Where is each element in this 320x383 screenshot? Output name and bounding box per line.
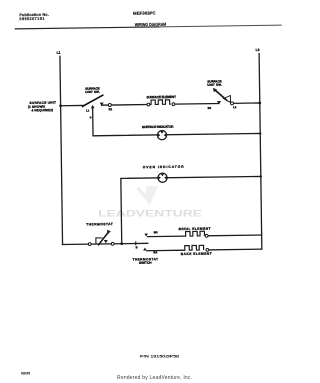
svg-text:SURFACE ELEMENT: SURFACE ELEMENT: [146, 95, 176, 99]
svg-text:THERMOSTAT: THERMOSTAT: [86, 222, 113, 226]
wire bake to bus: [207, 248, 261, 251]
bus L3: [259, 53, 262, 249]
resistor bake element: [181, 245, 212, 256]
svg-text:L3: L3: [233, 105, 237, 109]
svg-text:UNIT SW.: UNIT SW.: [85, 90, 100, 94]
node L1 junction: [59, 104, 62, 107]
svg-text:SWITCH: SWITCH: [139, 261, 152, 265]
node L3 junction top: [258, 102, 261, 105]
node surface indicator bus junction: [259, 132, 261, 134]
wire P drop: [93, 104, 261, 135]
svg-text:BAKE ELEMENT: BAKE ELEMENT: [181, 252, 212, 256]
svg-text:SURFACE INDICATOR: SURFACE INDICATOR: [142, 125, 174, 129]
svg-text:P: P: [90, 116, 92, 120]
wire surface line left: [61, 104, 83, 106]
svg-text:LEADVENTURE: LEADVENTURE: [98, 208, 202, 218]
thermostat: [86, 222, 114, 245]
wire right switch to bus: [232, 102, 260, 104]
svg-text:4 REQUIRED): 4 REQUIRED): [31, 108, 53, 112]
wire bake branch: [147, 249, 185, 252]
switch surface unit sw left: [82, 86, 113, 119]
resistor surface element: [146, 95, 176, 106]
svg-text:BR: BR: [154, 230, 158, 234]
svg-text:UNIT SW.: UNIT SW.: [207, 83, 222, 87]
svg-text:L3: L3: [256, 48, 260, 52]
wire thermostat line: [63, 243, 148, 244]
svg-text:08/95: 08/95: [21, 372, 30, 376]
svg-text:BA: BA: [153, 250, 157, 254]
svg-text:B1: B1: [109, 107, 113, 111]
wire oven indicator: [121, 176, 262, 243]
node thermostat junction: [120, 242, 123, 245]
svg-text:B: B: [136, 245, 138, 249]
label surface unit note: [28, 101, 56, 113]
thermostat switch contacts: [132, 230, 158, 265]
resistor broil element: [179, 227, 211, 238]
watermark logo: [138, 186, 159, 205]
svg-text:BROIL ELEMENT: BROIL ELEMENT: [179, 227, 211, 231]
svg-text:B2: B2: [208, 106, 212, 110]
node oven indicator bus junction: [260, 175, 262, 177]
wire contact to element: [102, 104, 149, 107]
lamp surface indicator: [142, 125, 174, 140]
svg-text:OVEN INDICATOR: OVEN INDICATOR: [143, 165, 185, 170]
svg-text:Rendered by LeadVenture, Inc.: Rendered by LeadVenture, Inc.: [117, 375, 192, 381]
svg-text:P/N 191502IP58: P/N 191502IP58: [140, 353, 180, 358]
header rule: [15, 27, 160, 29]
svg-text:5995267191: 5995267191: [19, 16, 45, 21]
wire broil branch: [148, 235, 186, 238]
switch surface unit sw right: [207, 79, 237, 110]
svg-text:L1: L1: [86, 108, 90, 112]
svg-text:MEF303PC: MEF303PC: [133, 10, 156, 15]
wire element to right switch: [175, 103, 219, 106]
wire broil to bus: [207, 234, 262, 237]
svg-text:L1: L1: [57, 51, 61, 55]
lamp oven indicator: [143, 165, 185, 183]
bus L1: [60, 56, 63, 244]
